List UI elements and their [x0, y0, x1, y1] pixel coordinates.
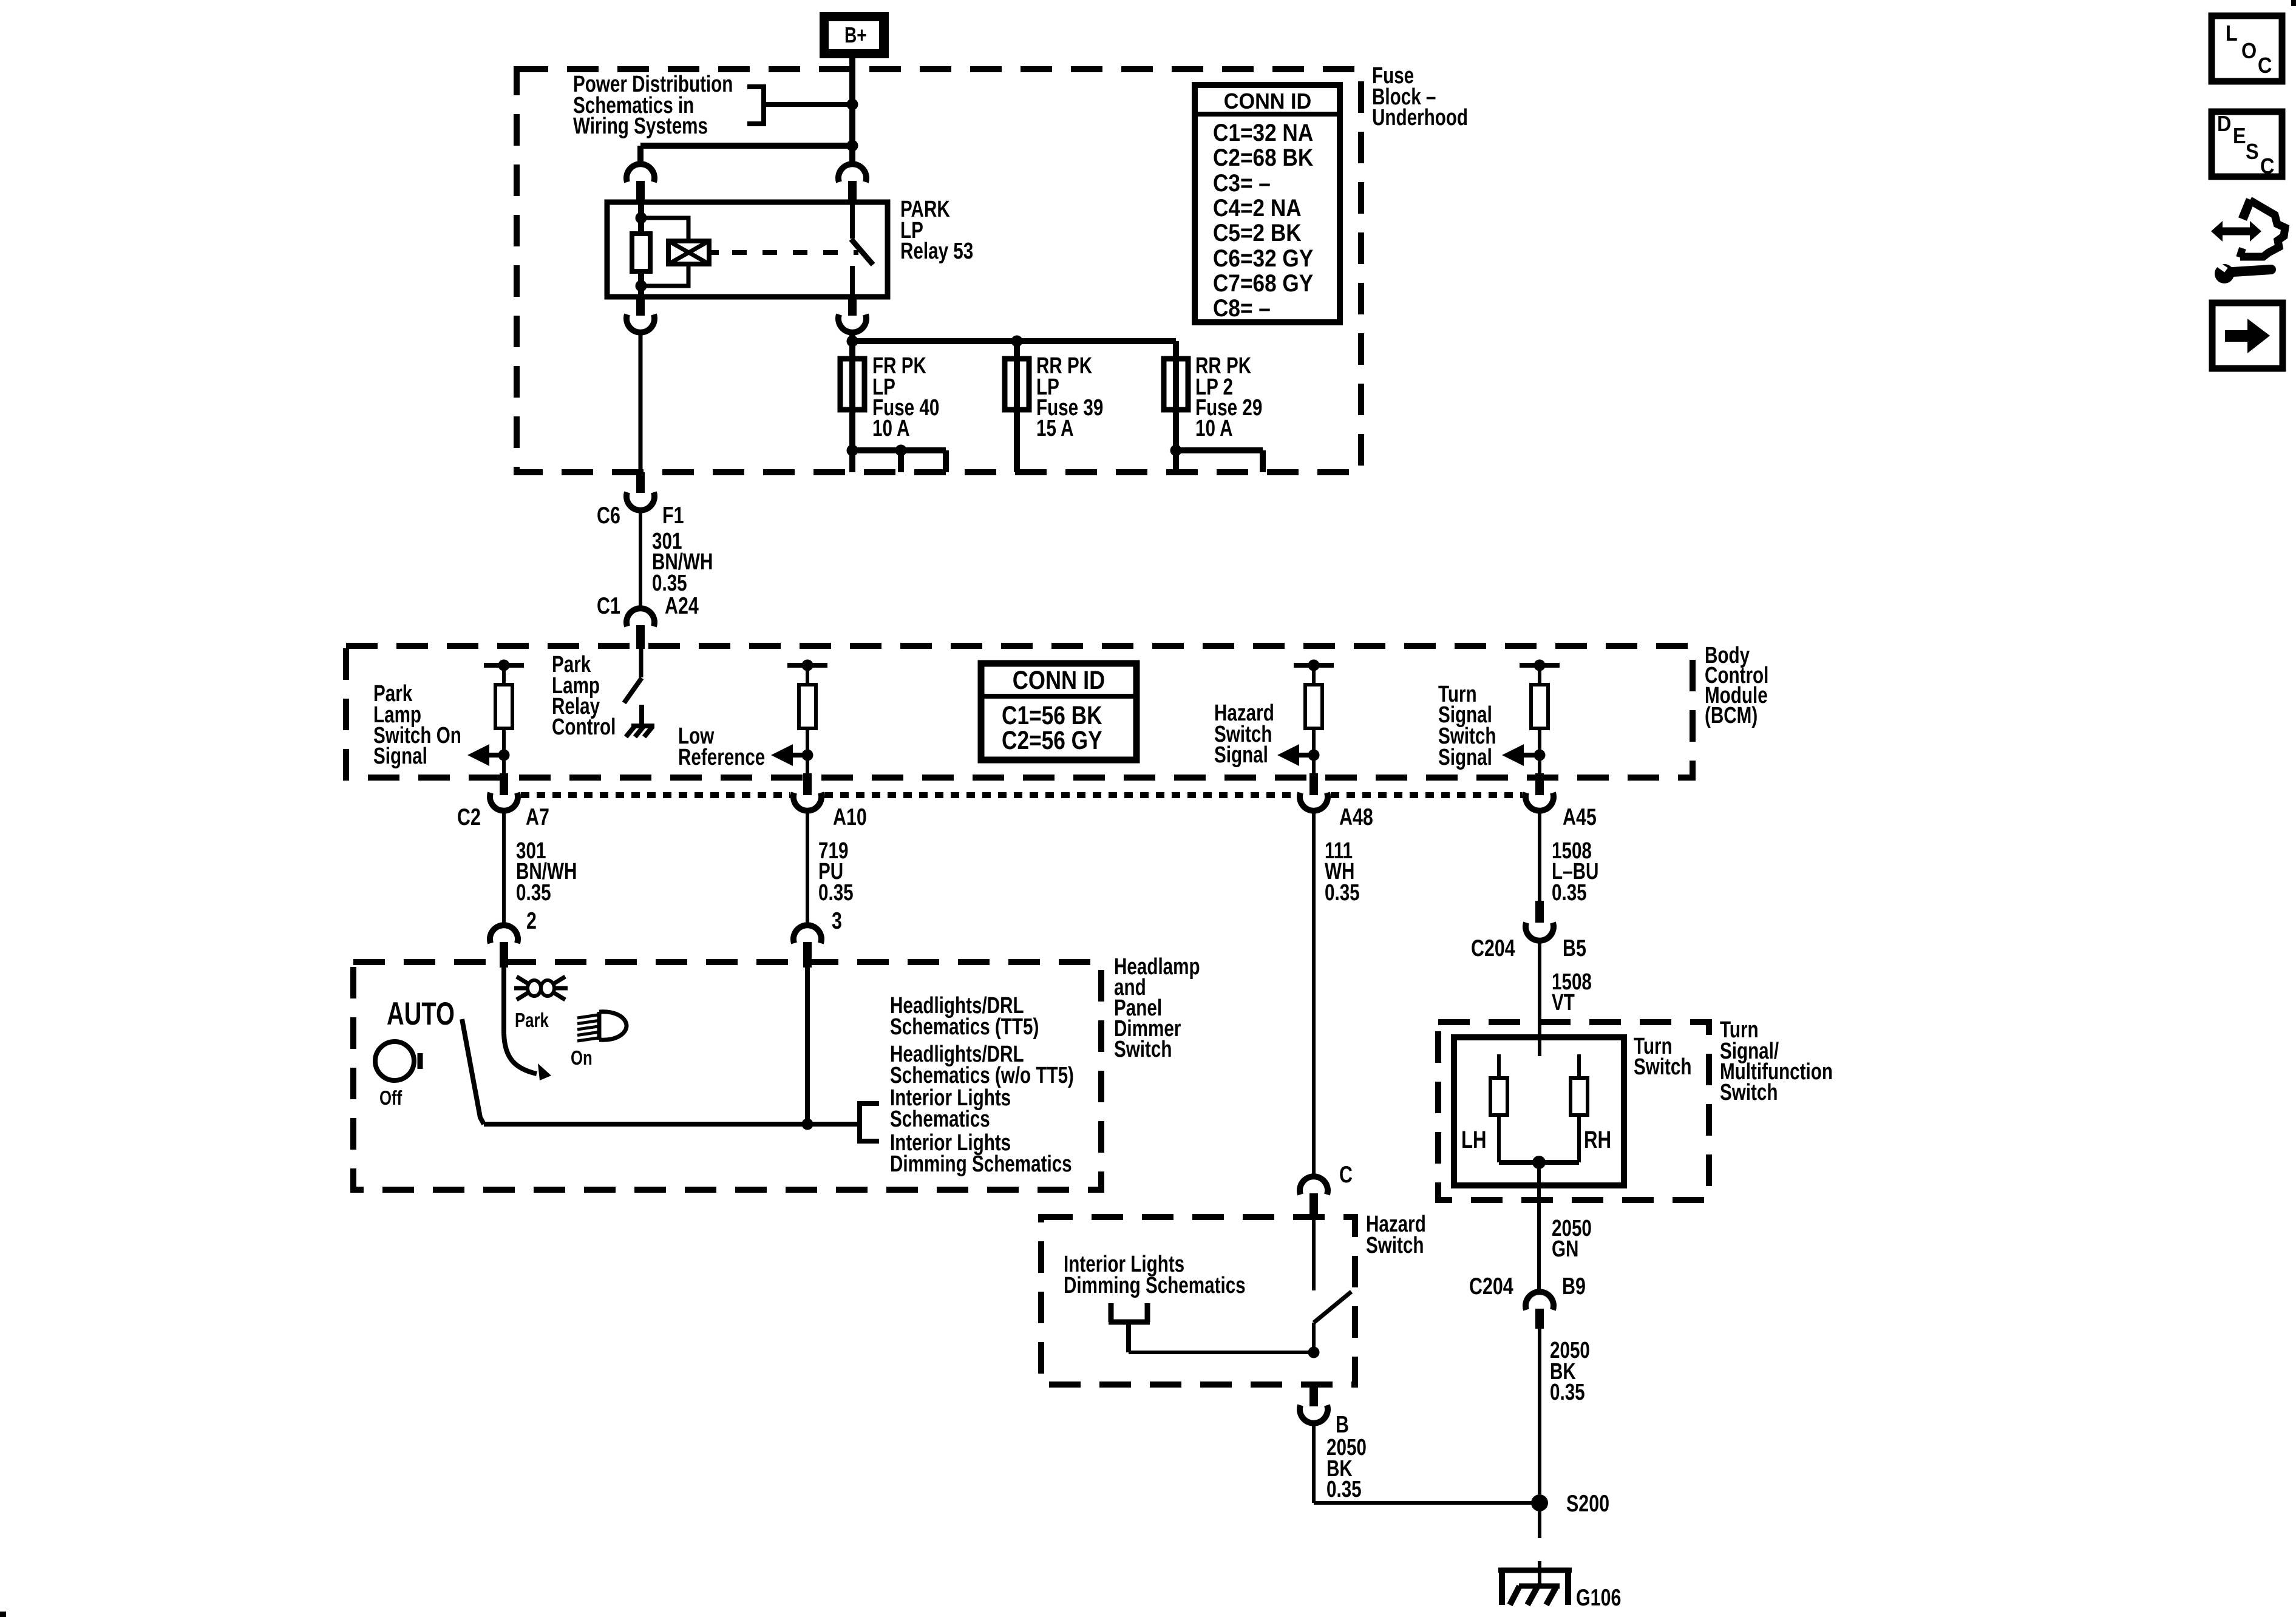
svg-text:2: 2	[526, 907, 537, 934]
svg-text:Dimming Schematics: Dimming Schematics	[1064, 1273, 1246, 1298]
svg-text:C: C	[2258, 53, 2272, 78]
svg-text:C: C	[2260, 154, 2274, 178]
svg-text:10 A: 10 A	[872, 416, 909, 441]
svg-text:RH: RH	[1584, 1126, 1611, 1153]
svg-text:B5: B5	[1563, 935, 1586, 961]
svg-text:Off: Off	[379, 1087, 402, 1110]
svg-text:3: 3	[832, 907, 842, 934]
svg-text:15 A: 15 A	[1036, 416, 1073, 441]
svg-text:O: O	[2241, 39, 2257, 63]
svg-text:VT: VT	[1552, 990, 1575, 1015]
svg-text:Switch: Switch	[1634, 1054, 1691, 1080]
svg-text:0.35: 0.35	[1325, 880, 1360, 906]
svg-text:10 A: 10 A	[1195, 416, 1232, 441]
svg-text:(BCM): (BCM)	[1705, 703, 1758, 728]
svg-text:Relay 53: Relay 53	[900, 239, 973, 264]
svg-text:C5=2 BK: C5=2 BK	[1213, 219, 1302, 246]
svg-text:CONN ID: CONN ID	[1224, 89, 1311, 114]
svg-text:C2=68 BK: C2=68 BK	[1213, 144, 1313, 171]
svg-text:A7: A7	[526, 804, 549, 830]
svg-text:F1: F1	[662, 502, 684, 528]
svg-text:B: B	[1336, 1411, 1349, 1437]
svg-text:0.35: 0.35	[818, 880, 854, 906]
svg-text:LH: LH	[1461, 1126, 1487, 1153]
svg-text:C7=68 GY: C7=68 GY	[1213, 269, 1313, 297]
svg-text:Wiring Systems: Wiring Systems	[573, 114, 708, 139]
svg-text:Signal: Signal	[373, 744, 427, 769]
svg-text:Signal: Signal	[1438, 745, 1492, 770]
svg-text:Switch: Switch	[1366, 1233, 1424, 1258]
svg-text:Signal: Signal	[1214, 742, 1268, 768]
svg-text:D: D	[2217, 112, 2231, 136]
svg-text:C1=32 NA: C1=32 NA	[1213, 119, 1313, 146]
svg-text:Schematics: Schematics	[890, 1107, 990, 1132]
svg-text:C204: C204	[1471, 935, 1515, 961]
svg-text:Dimming Schematics: Dimming Schematics	[890, 1151, 1072, 1177]
svg-text:Underhood: Underhood	[1372, 105, 1468, 131]
svg-text:Switch: Switch	[1720, 1080, 1778, 1105]
svg-text:B+: B+	[844, 23, 867, 47]
svg-text:A24: A24	[665, 592, 699, 619]
svg-text:C1: C1	[597, 592, 620, 619]
svg-text:C3= –: C3= –	[1213, 169, 1271, 197]
svg-text:C6: C6	[597, 502, 620, 528]
svg-text:G106: G106	[1576, 1584, 1621, 1610]
svg-text:C2=56 GY: C2=56 GY	[1002, 726, 1102, 755]
svg-text:AUTO: AUTO	[387, 995, 455, 1031]
svg-text:On: On	[571, 1047, 593, 1070]
svg-text:Schematics (TT5): Schematics (TT5)	[890, 1014, 1039, 1040]
svg-text:0.35: 0.35	[516, 880, 551, 906]
svg-text:Switch: Switch	[1114, 1037, 1172, 1062]
svg-text:Park: Park	[515, 1009, 549, 1032]
svg-text:Control: Control	[552, 714, 616, 740]
svg-text:B9: B9	[1562, 1273, 1586, 1299]
svg-text:A45: A45	[1563, 804, 1597, 830]
svg-text:S: S	[2246, 140, 2259, 164]
svg-text:0.35: 0.35	[1552, 880, 1587, 906]
svg-text:C204: C204	[1469, 1273, 1513, 1299]
svg-text:E: E	[2233, 124, 2246, 148]
svg-text:A10: A10	[833, 804, 867, 830]
svg-text:A48: A48	[1339, 804, 1373, 830]
svg-text:C6=32 GY: C6=32 GY	[1213, 245, 1313, 272]
svg-text:C4=2 NA: C4=2 NA	[1213, 194, 1302, 222]
svg-text:C8= –: C8= –	[1213, 294, 1271, 322]
svg-text:C2: C2	[457, 804, 481, 830]
svg-text:GN: GN	[1552, 1236, 1578, 1262]
svg-text:Reference: Reference	[678, 745, 765, 770]
svg-text:0.35: 0.35	[1550, 1380, 1585, 1405]
svg-text:S200: S200	[1566, 1490, 1609, 1516]
svg-text:CONN ID: CONN ID	[1013, 666, 1105, 695]
svg-text:L: L	[2226, 21, 2238, 46]
svg-text:C: C	[1339, 1161, 1353, 1187]
svg-text:0.35: 0.35	[1326, 1477, 1362, 1502]
